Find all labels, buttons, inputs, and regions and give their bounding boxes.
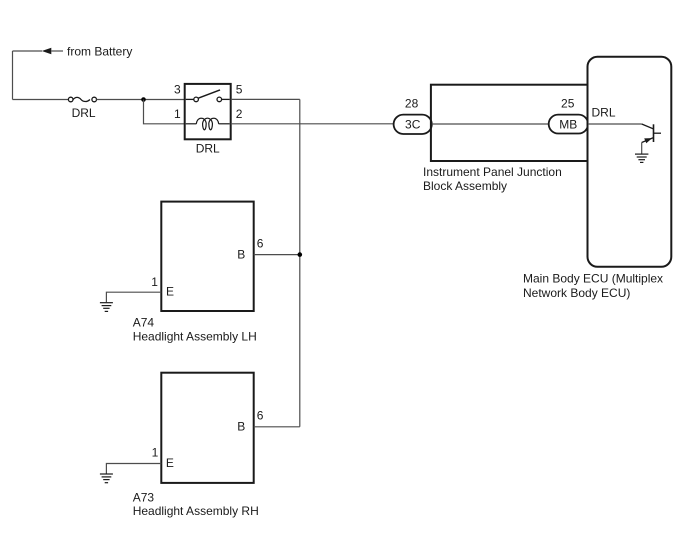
headlight assembly LH box A74: [161, 202, 253, 311]
headlight assembly RH box A73: [161, 373, 253, 483]
relay coil: [186, 118, 230, 130]
svg-text:6: 6: [257, 237, 264, 251]
svg-text:DRL: DRL: [72, 106, 96, 120]
wire bus to A73 B: [254, 426, 300, 428]
svg-text:Headlight Assembly RH: Headlight Assembly RH: [133, 504, 259, 518]
ground (A74): [100, 303, 113, 312]
svg-text:1: 1: [152, 446, 159, 460]
svg-text:25: 25: [561, 96, 575, 110]
svg-text:28: 28: [405, 96, 419, 110]
svg-text:Instrument Panel Junction: Instrument Panel Junction: [423, 165, 562, 179]
svg-text:E: E: [166, 284, 174, 298]
wire 3C to MB: [432, 123, 549, 125]
wire vertical bus to headlights: [299, 99, 301, 426]
svg-text:A74: A74: [133, 316, 155, 330]
relay switch contacts: [186, 90, 230, 102]
svg-text:DRL: DRL: [196, 141, 220, 155]
svg-text:2: 2: [236, 107, 243, 121]
svg-text:A73: A73: [133, 490, 155, 504]
instrument panel junction block: [431, 85, 589, 161]
connector MB oval: [549, 115, 588, 134]
ground (transistor emitter): [635, 154, 648, 162]
wire relay pin5 to vertical bus: [231, 98, 300, 100]
svg-text:6: 6: [257, 409, 264, 423]
wire main horizontal to fuse: [13, 99, 69, 101]
svg-text:B: B: [237, 248, 245, 262]
svg-text:Network Body ECU): Network Body ECU): [523, 286, 630, 300]
svg-text:3C: 3C: [405, 118, 421, 132]
svg-text:Main Body ECU (Multiplex: Main Body ECU (Multiplex: [523, 272, 663, 286]
junction node: [298, 252, 303, 257]
wire battery top horizontal: [13, 50, 43, 52]
ground (A73): [100, 474, 113, 483]
wire branch to relay pin 1: [144, 100, 185, 124]
connector 3C oval: [394, 115, 432, 134]
svg-text:B: B: [237, 419, 245, 433]
junction node: [141, 97, 146, 102]
wire from battery vertical drop: [12, 51, 14, 100]
svg-text:Headlight Assembly LH: Headlight Assembly LH: [133, 330, 257, 344]
wire relay pin2 to 3C: [231, 123, 394, 125]
svg-text:MB: MB: [559, 118, 577, 132]
arrow from Battery: [42, 48, 52, 55]
wire A74 E to ground: [106, 292, 161, 302]
relay DRL box: [185, 84, 231, 139]
svg-text:from Battery: from Battery: [67, 45, 132, 59]
svg-text:Block Assembly: Block Assembly: [423, 179, 507, 193]
svg-text:3: 3: [174, 82, 181, 96]
svg-text:5: 5: [236, 82, 243, 96]
transistor Q (PNP): [642, 124, 661, 143]
wire emitter to ground: [641, 143, 643, 154]
main body ECU box: [588, 57, 672, 267]
svg-text:1: 1: [174, 107, 181, 121]
wire MB to transistor base: [588, 123, 642, 125]
svg-text:1: 1: [151, 275, 158, 289]
svg-text:DRL: DRL: [592, 105, 616, 119]
wire A73 E to ground: [106, 464, 161, 474]
svg-text:E: E: [166, 456, 174, 470]
wire fuse to junction and relay pin 3: [97, 99, 185, 101]
wire A74 B to bus: [254, 254, 300, 256]
fuse DRL: [68, 97, 96, 102]
